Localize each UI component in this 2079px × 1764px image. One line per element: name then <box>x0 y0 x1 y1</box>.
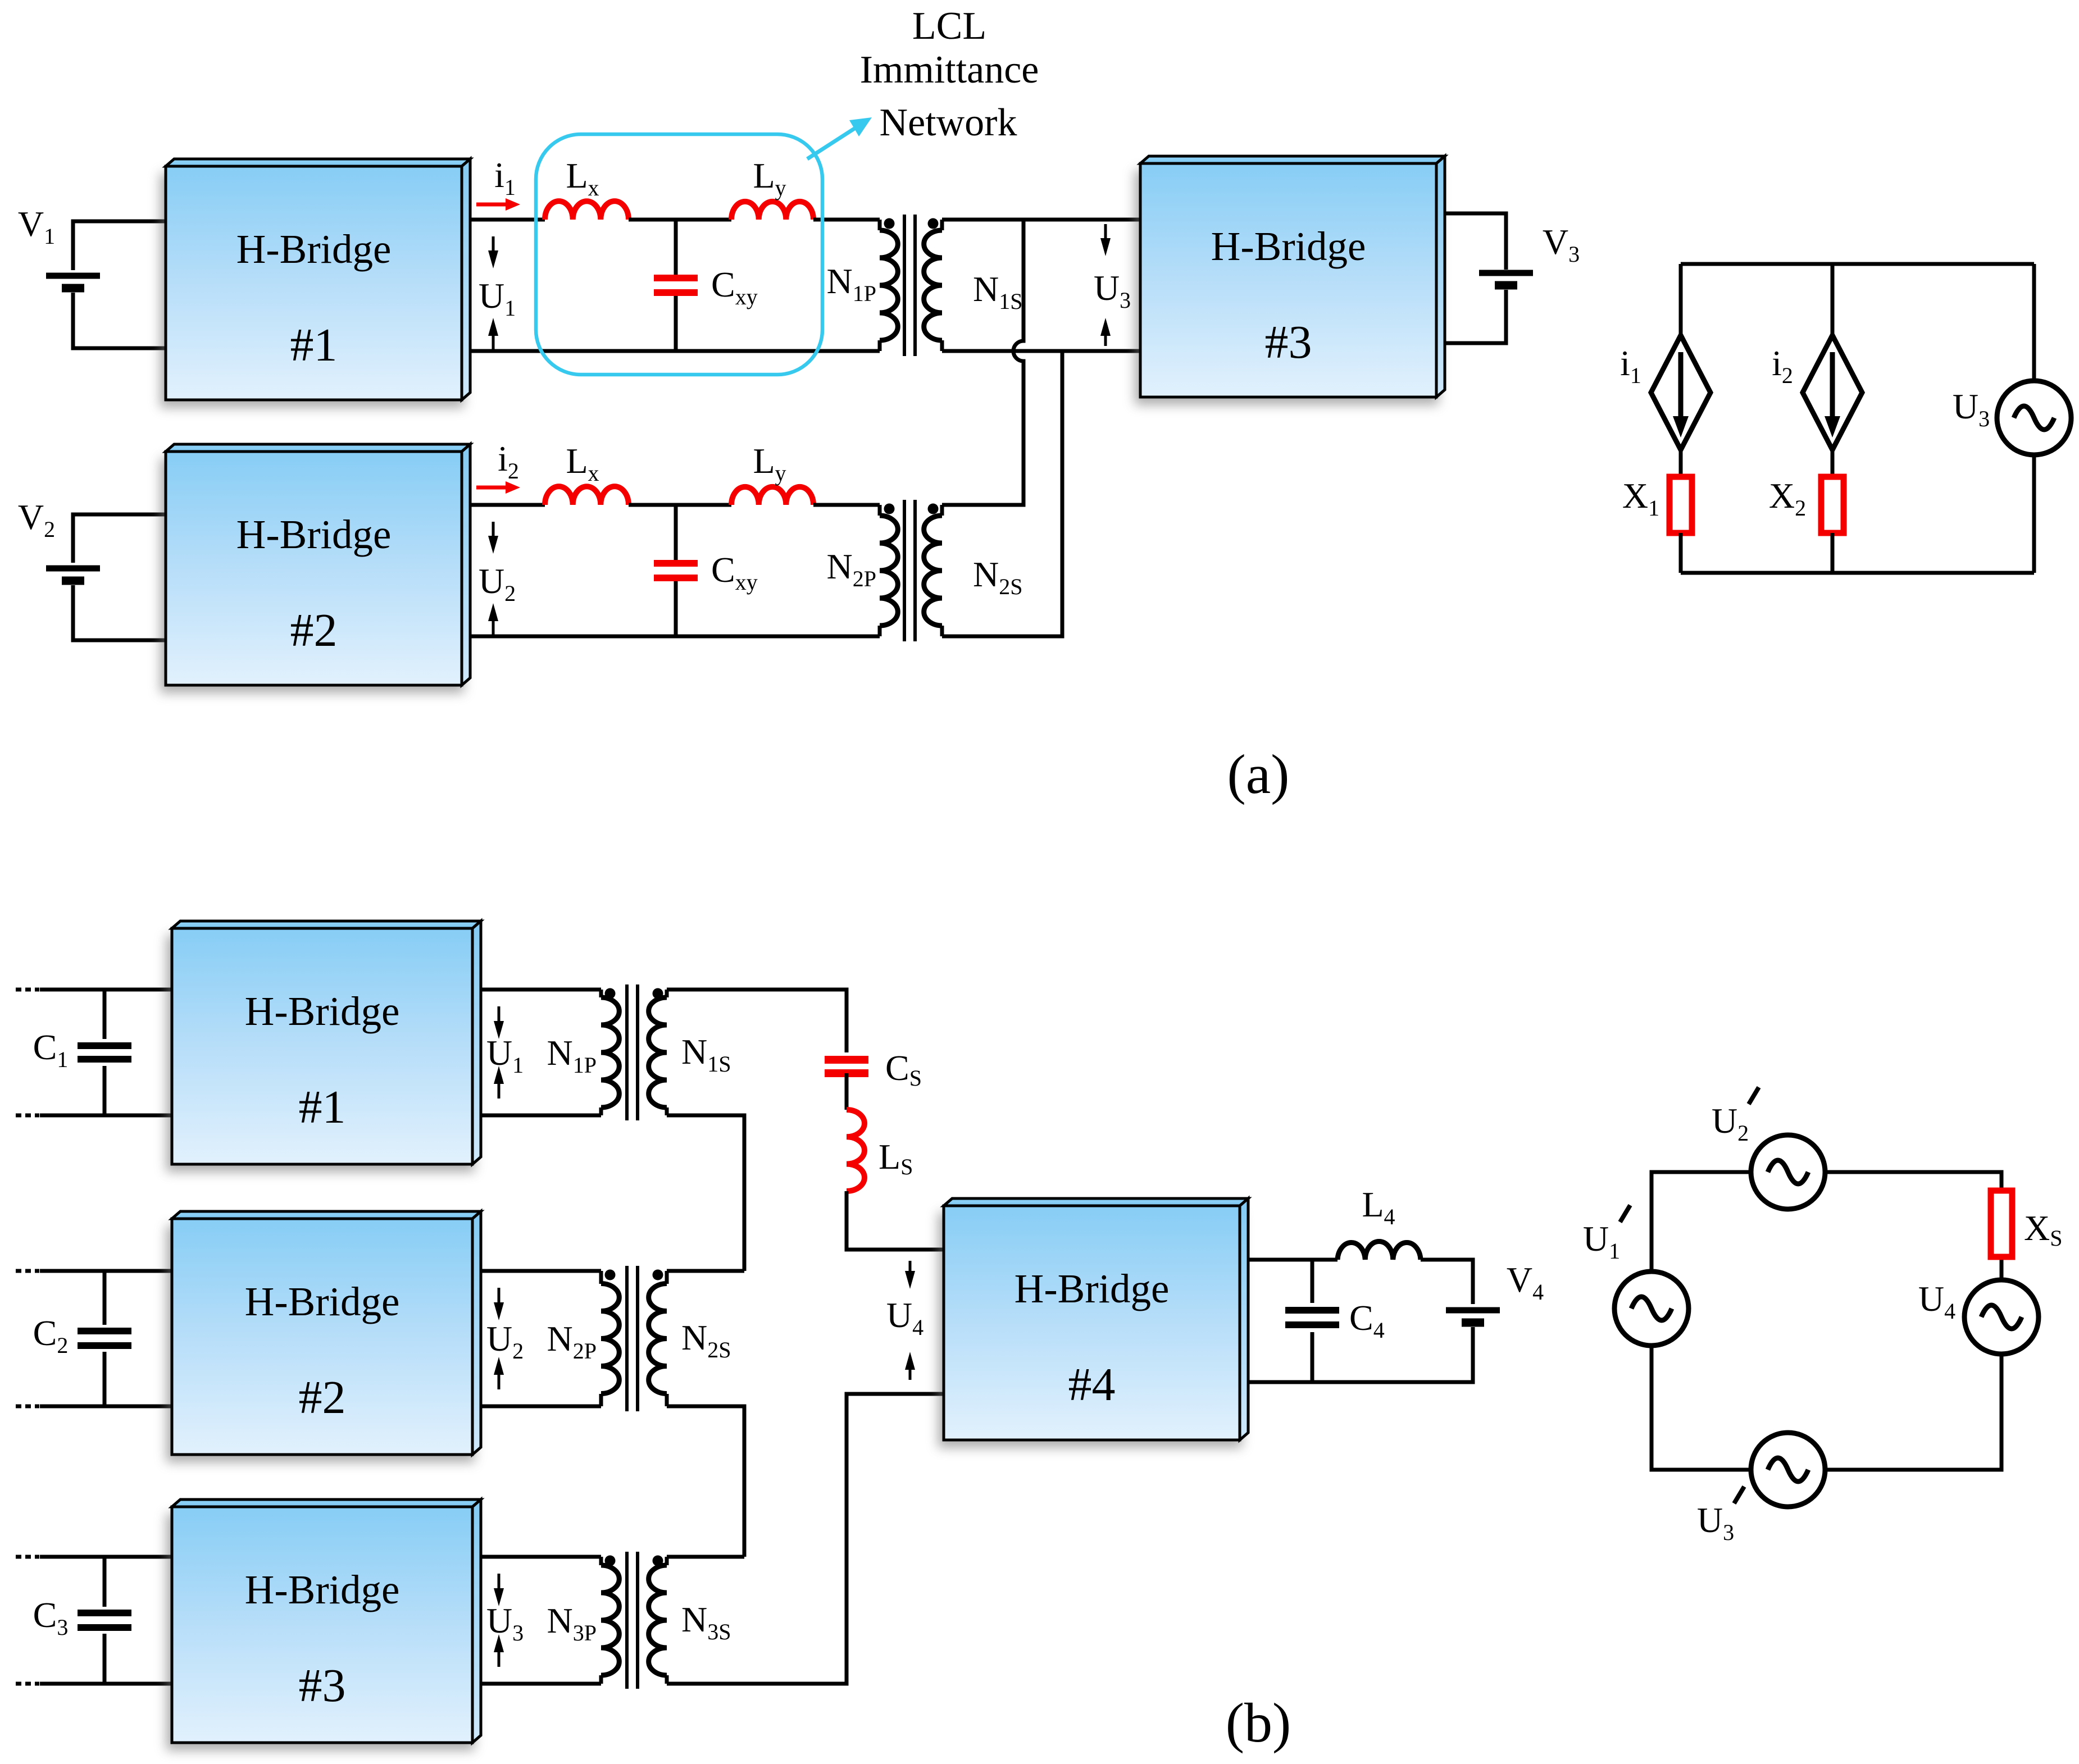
wire U2 (b) bottom <box>481 1405 601 1409</box>
wire DC input bottom row3 <box>40 1682 172 1686</box>
arrow U3 down <box>1100 224 1111 256</box>
transformer T2 (a) secondary dot <box>928 504 939 514</box>
prime of U1' <box>1620 1205 1630 1222</box>
wire U3 (b) bottom <box>481 1682 601 1686</box>
wire secondary link A (with hop) <box>942 220 1023 505</box>
svg-text:#2: #2 <box>290 604 338 657</box>
H-bridge block #1 (b) <box>166 921 481 1172</box>
equivalent (a) right branch bottom <box>2032 455 2036 573</box>
transformer T2 (a) core <box>904 500 915 641</box>
inductor Ly (circuit 1) <box>731 202 813 220</box>
wire U2 output top <box>470 503 545 507</box>
current source i1 <box>1651 335 1710 450</box>
transformer T1 (a) primary winding <box>878 220 882 230</box>
transformer T2 (b) secondary winding <box>665 1271 669 1284</box>
reactance X2 <box>1821 477 1844 533</box>
transformer T2 (b) secondary dot <box>653 1270 663 1280</box>
wire N1S top to H-bridge 3 <box>942 218 1140 222</box>
wire Lx to Ly (circuit 2) <box>629 503 731 507</box>
wire Cs to Ls <box>845 1073 849 1110</box>
wire V3 loop top <box>1445 213 1506 270</box>
wire C3 branch <box>103 1557 107 1684</box>
transformer T2 (a) secondary coil <box>924 516 942 626</box>
equivalent (a) mid branch top <box>1831 264 1835 335</box>
svg-text:#1: #1 <box>299 1081 346 1133</box>
wire C2 branch <box>103 1271 107 1406</box>
arrow U1 (b) down <box>494 1006 504 1039</box>
svg-text:#3: #3 <box>299 1660 346 1712</box>
battery V1 <box>46 276 100 288</box>
wire DC bus dashes bottom row2 <box>16 1405 39 1409</box>
arrow U2 up <box>488 603 498 635</box>
capacitor Cxy (circuit 2) <box>654 563 698 578</box>
arrow U1 down <box>488 236 498 268</box>
wire DC bus dashes bottom row3 <box>16 1682 39 1686</box>
arrow U3 (b) down <box>494 1574 504 1606</box>
inductor Lx (circuit 2) <box>545 486 629 505</box>
svg-text:Immittance: Immittance <box>860 48 1039 92</box>
transformer T2 (b) primary coil <box>601 1284 619 1394</box>
capacitor C3 <box>78 1613 131 1628</box>
wire H-bridge 4 output top <box>1248 1258 1338 1262</box>
wire N1S bottom to H-bridge 3 <box>942 349 1140 353</box>
wire Ly to transformer 1 <box>813 218 880 222</box>
svg-text:H-Bridge: H-Bridge <box>245 1567 400 1612</box>
wire V2 loop bottom <box>73 585 166 640</box>
capacitor Cxy (circuit 1) <box>654 278 698 293</box>
svg-text:H-Bridge: H-Bridge <box>1211 224 1366 269</box>
H-bridge block #3 (b) <box>166 1499 481 1751</box>
transformer T3 (b) primary dot <box>605 1556 616 1566</box>
equivalent (a) bottom wire <box>1681 571 2034 575</box>
transformer T1 (b) primary coil <box>601 997 619 1107</box>
wire C1 branch <box>103 990 107 1115</box>
AC source U2' <box>1751 1135 1825 1209</box>
wire V3 loop bottom <box>1445 290 1506 343</box>
wire N3S top stub <box>667 1555 744 1559</box>
wire U1 output bottom <box>470 349 880 353</box>
transformer T3 (b) secondary coil <box>649 1565 667 1675</box>
equivalent (a) mid branch bottom <box>1831 533 1835 573</box>
wire U1 (b) top <box>481 988 601 992</box>
battery V2 <box>46 568 100 581</box>
current source i2 <box>1803 335 1862 450</box>
svg-text:(a): (a) <box>1227 743 1290 805</box>
arrow U2 down <box>488 522 498 554</box>
wire Cxy branch (circuit 2) <box>674 505 678 636</box>
arrow U1 up <box>488 318 498 350</box>
H-bridge block #2 (b) <box>166 1211 481 1462</box>
current arrow i1 <box>476 198 520 211</box>
wire DC input top row1 <box>40 988 172 992</box>
capacitor C1 <box>78 1046 131 1059</box>
svg-text:LCL: LCL <box>912 4 986 48</box>
transformer T2 (b) primary dot <box>605 1270 616 1280</box>
wire N1S top to Cs <box>667 990 847 1052</box>
svg-text:#3: #3 <box>1265 316 1312 368</box>
transformer T1 (a) secondary dot <box>928 218 939 229</box>
H-bridge block #2 (a) <box>160 444 470 693</box>
wire L4 to V4 <box>1421 1260 1473 1304</box>
battery V4 <box>1446 1310 1500 1323</box>
transformer T1 (b) core <box>627 984 638 1120</box>
capacitor Cs <box>825 1060 868 1073</box>
wire DC bus dashes top row1 <box>16 988 39 992</box>
wire DC input bottom row2 <box>40 1405 172 1409</box>
wire N3S bottom to H-bridge 4 return <box>667 1394 944 1684</box>
transformer T2 (b) primary winding <box>599 1271 603 1284</box>
transformer T2 (a) secondary winding <box>940 505 944 516</box>
AC source U1' <box>1614 1271 1689 1346</box>
transformer T1 (b) secondary coil <box>649 997 667 1107</box>
wire DC bus dashes top row2 <box>16 1269 39 1273</box>
transformer T2 (b) core <box>627 1266 638 1411</box>
wire U3 (b) top <box>481 1555 601 1559</box>
inductor L4 <box>1338 1241 1421 1260</box>
capacitor C2 <box>78 1331 131 1346</box>
H-bridge block #1 (a) <box>160 159 470 408</box>
wire N2S bottom link <box>667 1406 744 1557</box>
svg-text:H-Bridge: H-Bridge <box>1015 1266 1170 1311</box>
wire Ls to H-bridge 4 <box>847 1191 944 1250</box>
inductor Ly (circuit 2) <box>731 487 813 505</box>
equivalent (a) right branch top <box>2032 264 2036 381</box>
equivalent (a) top wire <box>1681 262 2034 266</box>
transformer T3 (b) primary coil <box>601 1565 619 1675</box>
equivalent (a) left branch mid <box>1679 450 1683 477</box>
wire V1 loop top <box>73 221 166 270</box>
wire DC input bottom row1 <box>40 1114 172 1118</box>
wire U2 output bottom <box>470 635 880 639</box>
wire V1 loop bottom <box>73 293 166 348</box>
AC source U4 (equiv b) <box>1964 1280 2039 1354</box>
arrow U2 (b) up <box>494 1357 504 1389</box>
transformer T1 (a) core <box>904 215 915 356</box>
wire Cxy branch (circuit 1) <box>674 220 678 351</box>
wire U1 (b) bottom <box>481 1114 601 1118</box>
transformer T2 (a) primary dot <box>884 504 895 514</box>
transformer T1 (b) primary winding <box>599 990 603 997</box>
AC source U3' <box>1751 1433 1825 1507</box>
transformer T3 (b) secondary winding <box>665 1557 669 1565</box>
wire V2 loop top <box>73 514 166 563</box>
wire DC bus dashes top row3 <box>16 1555 39 1559</box>
transformer T1 (b) primary dot <box>605 988 616 999</box>
equivalent (b) loop <box>1652 1172 2001 1470</box>
H-bridge block #3 (a) <box>1135 156 1445 405</box>
transformer T2 (a) primary coil <box>880 516 898 626</box>
wire U1 output top <box>470 218 545 222</box>
wire N1S bottom link <box>667 1115 744 1271</box>
wire Ly to transformer 2 <box>813 503 880 507</box>
transformer T1 (a) primary dot <box>884 218 895 229</box>
wire DC input top row2 <box>40 1269 172 1273</box>
wire DC input top row3 <box>40 1555 172 1559</box>
arrow U2 (b) down <box>494 1288 504 1320</box>
H-bridge block #4 (b) <box>938 1198 1248 1448</box>
transformer T3 (b) core <box>627 1552 638 1689</box>
wire DC bus dashes bottom row1 <box>16 1114 39 1118</box>
inductor Lx (circuit 1) <box>545 201 629 220</box>
equivalent (a) mid branch mid <box>1831 450 1835 477</box>
svg-text:#1: #1 <box>290 319 338 371</box>
inductor Ls <box>847 1110 865 1191</box>
svg-text:#4: #4 <box>1068 1359 1116 1411</box>
current arrow i2 <box>476 481 520 494</box>
prime of U3' <box>1734 1487 1744 1503</box>
equivalent (a) left branch bottom <box>1679 533 1683 573</box>
battery V3 <box>1479 273 1533 285</box>
transformer T2 (a) primary winding <box>878 505 882 516</box>
arrow U4 down <box>905 1261 915 1289</box>
svg-text:#2: #2 <box>299 1371 346 1424</box>
svg-text:H-Bridge: H-Bridge <box>236 226 392 272</box>
svg-text:(b): (b) <box>1226 1692 1291 1754</box>
wire N2S top stub <box>667 1269 744 1273</box>
transformer T1 (b) secondary winding <box>665 990 669 997</box>
transformer T1 (b) secondary dot <box>653 988 663 999</box>
wire Lx to Ly <box>629 218 731 222</box>
arrow U3 (b) up <box>494 1634 504 1667</box>
capacitor C4 <box>1285 1310 1339 1325</box>
LCL immittance network outline (cyan) <box>536 134 822 375</box>
wire C4 branch <box>1311 1260 1314 1382</box>
transformer T3 (b) secondary dot <box>653 1556 663 1566</box>
wire U2 (b) top <box>481 1269 601 1273</box>
prime of U2' <box>1749 1087 1759 1104</box>
cyan callout arrow <box>807 117 872 159</box>
wire secondary link B <box>942 351 1062 636</box>
transformer T1 (a) secondary winding <box>940 220 944 230</box>
svg-text:H-Bridge: H-Bridge <box>245 988 400 1034</box>
svg-text:H-Bridge: H-Bridge <box>245 1279 400 1324</box>
svg-text:Network: Network <box>880 101 1017 144</box>
transformer T1 (a) secondary coil <box>924 230 942 340</box>
arrow U1 (b) up <box>494 1066 504 1098</box>
arrow U4 up <box>905 1352 915 1380</box>
transformer T2 (b) secondary coil <box>649 1284 667 1394</box>
transformer T1 (a) primary coil <box>880 230 898 340</box>
reactance Xs <box>1991 1191 2012 1257</box>
transformer T3 (b) primary winding <box>599 1557 603 1565</box>
wire V4 bottom <box>1248 1327 1473 1382</box>
AC source U3 (equiv a) <box>1997 381 2071 455</box>
reactance X1 <box>1669 477 1692 533</box>
svg-text:H-Bridge: H-Bridge <box>236 512 392 557</box>
arrow U3 up <box>1100 318 1111 346</box>
equivalent (a) left branch top <box>1679 264 1683 335</box>
